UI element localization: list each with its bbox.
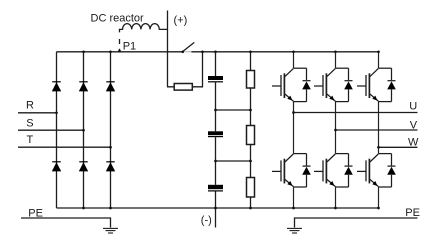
svg-text:R: R — [26, 99, 34, 111]
svg-text:(-): (-) — [201, 215, 212, 227]
svg-text:T: T — [27, 134, 34, 146]
svg-text:P1: P1 — [123, 40, 136, 52]
svg-text:W: W — [408, 137, 419, 149]
svg-text:U: U — [409, 101, 417, 113]
svg-text:PE: PE — [28, 208, 43, 220]
svg-text:PE: PE — [405, 207, 420, 219]
svg-text:S: S — [26, 117, 33, 129]
svg-text:DC reactor: DC reactor — [91, 13, 145, 25]
svg-text:(+): (+) — [174, 14, 188, 26]
svg-text:V: V — [410, 120, 418, 132]
